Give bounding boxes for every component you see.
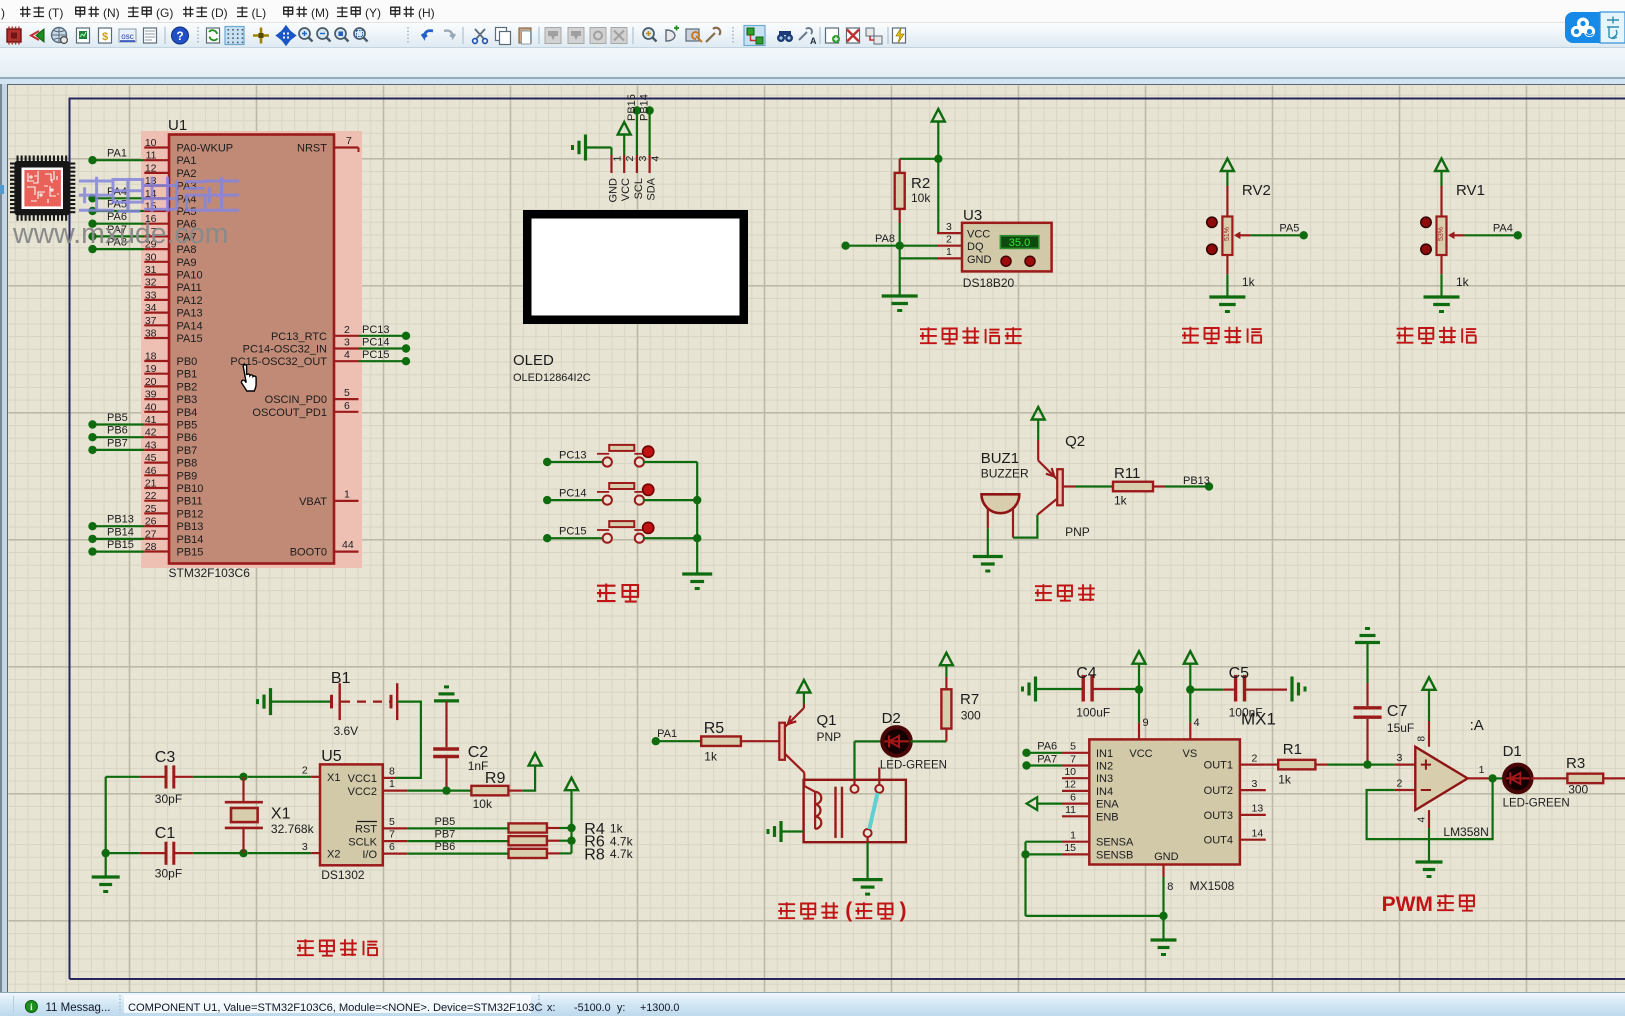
svg-text:25: 25 <box>145 503 157 515</box>
wire net PB6 from U5 <box>408 841 509 854</box>
potentiometer RV2 <box>1207 182 1271 289</box>
svg-text:37: 37 <box>145 315 157 327</box>
svg-text:PA12: PA12 <box>177 295 203 307</box>
U1 right pin BOOT0 <box>290 539 359 559</box>
wire net PB7 from U5 <box>408 829 509 842</box>
svg-text:2: 2 <box>624 156 636 162</box>
ground below RV1 <box>1424 295 1460 298</box>
svg-text:38: 38 <box>145 328 157 340</box>
svg-text:1k: 1k <box>1278 773 1292 787</box>
svg-text:C1: C1 <box>155 825 176 842</box>
svg-text:ENA: ENA <box>1096 799 1119 811</box>
OLED header ground <box>573 135 612 161</box>
OLED header pin 2 VCC <box>620 155 636 201</box>
svg-text:PB9: PB9 <box>177 470 198 482</box>
wire buzzer to Q2 collector <box>1013 515 1037 538</box>
potentiometer RV1 <box>1421 182 1485 289</box>
label 水位检测 <box>1182 327 1262 344</box>
wire net PA4 to U1 <box>88 186 144 203</box>
resistor R8 4.7k <box>509 846 634 863</box>
svg-text:(M): (M) <box>311 6 329 20</box>
label 蜂鸣器 <box>1035 584 1095 601</box>
svg-text:PB0: PB0 <box>177 356 198 368</box>
ground left of relay coil <box>768 821 804 842</box>
svg-text:PA1: PA1 <box>107 148 127 160</box>
svg-text:R2: R2 <box>911 175 930 192</box>
svg-text:11: 11 <box>146 150 157 162</box>
wire net PA8 <box>841 233 937 250</box>
svg-text:?: ? <box>176 29 183 43</box>
svg-text:4: 4 <box>344 349 350 361</box>
svg-text:PB7: PB7 <box>177 445 198 457</box>
wire R2 to PA8 net <box>899 223 901 246</box>
svg-text:3.6V: 3.6V <box>334 724 359 738</box>
led D2 LED-GREEN <box>880 710 947 772</box>
wire R5 to Q1 base <box>741 740 779 742</box>
label 按键 <box>597 584 638 602</box>
svg-text:PA10: PA10 <box>177 270 203 282</box>
svg-text:40: 40 <box>145 401 157 413</box>
wire X1 to U5 pins <box>248 777 312 853</box>
svg-text:1k: 1k <box>1114 494 1128 508</box>
U1 right pin OSCIN_PD0 <box>265 387 359 406</box>
svg-text:(N): (N) <box>103 6 120 20</box>
svg-text:VCC2: VCC2 <box>348 786 377 798</box>
svg-text:R8: R8 <box>584 846 605 863</box>
svg-text:22: 22 <box>145 490 157 502</box>
svg-text:DQ: DQ <box>967 241 984 253</box>
svg-text:GND: GND <box>608 178 620 203</box>
U1 left pins PB0-PB15 <box>144 351 203 559</box>
svg-text:R7: R7 <box>960 691 979 708</box>
wire net PC3 <box>359 337 411 353</box>
ground above C7 <box>1355 641 1380 644</box>
svg-text:PA15: PA15 <box>177 333 203 345</box>
svg-text:Q2: Q2 <box>1065 433 1085 450</box>
svg-text:1: 1 <box>946 246 952 258</box>
wire button PC14 to common <box>644 499 697 501</box>
svg-text:PB5: PB5 <box>435 816 456 828</box>
wire net PA8 to U1 <box>88 237 144 254</box>
svg-text:PB14: PB14 <box>639 94 651 121</box>
svg-text:GND: GND <box>1154 851 1179 863</box>
U1 right pin OSCOUT_PD1 <box>252 400 358 419</box>
svg-text:43: 43 <box>145 439 157 451</box>
svg-text:10: 10 <box>145 137 157 149</box>
svg-text:$: $ <box>102 31 108 43</box>
svg-text:6: 6 <box>344 400 350 412</box>
svg-text:LED-GREEN: LED-GREEN <box>1503 798 1570 810</box>
wire button PC15 to common <box>644 537 697 539</box>
wire net PA1 to U1 <box>88 148 144 165</box>
svg-text:OUT1: OUT1 <box>1204 760 1233 772</box>
wire net PA5 to U1 <box>88 199 144 216</box>
svg-text:U1: U1 <box>168 117 187 134</box>
transistor Q2 PNP <box>1037 433 1089 539</box>
svg-text:C3: C3 <box>155 749 176 766</box>
ground below DS18B20 net <box>882 294 918 297</box>
svg-text:1: 1 <box>344 489 350 501</box>
svg-text:PB6: PB6 <box>435 841 456 853</box>
svg-text:30pF: 30pF <box>155 867 182 881</box>
svg-text:27: 27 <box>145 528 157 540</box>
svg-text:PC13: PC13 <box>559 450 587 462</box>
svg-text:30: 30 <box>145 251 157 263</box>
svg-text:SCLK: SCLK <box>348 836 377 848</box>
svg-text:(L): (L) <box>252 6 267 20</box>
opamp U2:A LM358N <box>1395 717 1489 839</box>
wire net PA6 to IN1 <box>1022 741 1062 758</box>
svg-text:7: 7 <box>346 135 352 147</box>
wire SENSA SENSB common <box>1021 842 1163 916</box>
wire net PC15 to button <box>543 526 602 543</box>
svg-text:PB7: PB7 <box>435 829 456 841</box>
MX1508 right pin OUT1 <box>1204 752 1266 771</box>
crystal X1 32.768k <box>225 777 315 853</box>
driver MX1508 body <box>1089 739 1240 893</box>
svg-text:20: 20 <box>145 376 157 388</box>
wire net PA4 from RV1 wiper <box>1465 223 1523 240</box>
resistor R3 300 <box>1531 755 1625 797</box>
wire R1 to opamp <box>1328 763 1395 765</box>
svg-text:OUT4: OUT4 <box>1204 835 1233 847</box>
MX1508 right pin OUT3 <box>1204 803 1266 822</box>
ground below MX1508 <box>1151 938 1177 941</box>
svg-text:(D): (D) <box>211 6 228 20</box>
svg-text:PB13: PB13 <box>107 514 134 526</box>
svg-text:NRST: NRST <box>297 143 327 155</box>
svg-text:2: 2 <box>344 324 350 336</box>
svg-text:PNP: PNP <box>817 730 842 744</box>
wire net PA6 to U1 <box>88 211 144 228</box>
svg-text:53%: 53% <box>1438 227 1445 241</box>
watermark chip logo <box>10 156 75 221</box>
svg-text:PA1: PA1 <box>657 728 677 740</box>
label 继电器（搅拌） <box>778 902 838 919</box>
svg-text:1k: 1k <box>610 822 624 836</box>
svg-text:PA0-WKUP: PA0-WKUP <box>177 143 234 155</box>
wire RV2 to ground <box>1226 274 1228 297</box>
svg-text:PB5: PB5 <box>177 420 198 432</box>
svg-text:28: 28 <box>145 541 157 553</box>
svg-text:2: 2 <box>302 765 308 777</box>
svg-text:PA14: PA14 <box>177 320 203 332</box>
OLED header pin 3 SCL <box>633 155 649 199</box>
OLED header pin 4 SDA <box>646 155 662 201</box>
svg-text:PC14: PC14 <box>362 337 390 349</box>
svg-text:SENSA: SENSA <box>1096 837 1134 849</box>
svg-text:3: 3 <box>344 337 350 349</box>
MX1508 VS pin 4 <box>1190 717 1199 739</box>
svg-text:4: 4 <box>1194 717 1200 729</box>
U1 right pin NRST <box>297 135 358 155</box>
node junction C7/R1/opamp <box>1363 760 1371 768</box>
svg-text:300: 300 <box>1568 783 1588 797</box>
resistor R7 300 <box>941 677 981 729</box>
resistor R5 1k <box>701 720 741 764</box>
wire net PA5 from RV2 wiper <box>1250 223 1308 240</box>
push button at PC row y=500.1 <box>597 483 654 505</box>
wire buzzer to ground <box>987 528 989 556</box>
wire PA8 node to ground <box>900 246 937 296</box>
wire button PC13 to common <box>644 461 697 463</box>
wire relay contact to D2 <box>855 741 883 785</box>
svg-text:IN4: IN4 <box>1096 786 1113 798</box>
svg-text:41: 41 <box>145 414 157 426</box>
U1 right pin PC14-OSC32_IN <box>243 337 359 356</box>
watermark text 特纳斯电子 <box>79 177 239 212</box>
resistor R6 4.7k <box>509 834 634 851</box>
svg-text:): ) <box>900 899 907 922</box>
svg-text:VCC1: VCC1 <box>348 773 377 785</box>
svg-text:DS1302: DS1302 <box>321 868 365 882</box>
svg-text:OUT3: OUT3 <box>1204 810 1233 822</box>
svg-text:PB12: PB12 <box>177 508 204 520</box>
ground right of C5 <box>1290 677 1293 702</box>
wire D2 to R7 <box>911 729 947 742</box>
svg-text:12: 12 <box>1064 779 1076 791</box>
svg-text:OLED: OLED <box>513 352 554 369</box>
wire R4/R6/R8 common to power <box>560 789 576 853</box>
svg-text:PB4: PB4 <box>177 407 198 419</box>
svg-text:PB15: PB15 <box>177 547 204 559</box>
svg-text:IN2: IN2 <box>1096 761 1113 773</box>
svg-text:PB14: PB14 <box>107 526 134 538</box>
svg-text:PA1: PA1 <box>177 155 197 167</box>
svg-text::A: :A <box>1470 717 1484 734</box>
ground below buttons <box>682 572 712 575</box>
node junction VCC/R2 <box>934 155 942 163</box>
svg-text:LM358N: LM358N <box>1443 825 1488 839</box>
svg-text:PC13_RTC: PC13_RTC <box>271 331 327 343</box>
resistor R2 <box>895 159 939 223</box>
capacitor C4 100uF <box>1036 665 1121 720</box>
label 温度传感器 <box>920 327 1022 344</box>
svg-text:51%: 51% <box>1224 227 1231 241</box>
resistor R4 1k <box>509 821 624 838</box>
svg-text:LED-GREEN: LED-GREEN <box>880 760 947 772</box>
wire net PB14 to OLED SDA <box>639 94 654 155</box>
svg-text:I/O: I/O <box>362 849 377 861</box>
svg-text:PB13: PB13 <box>1183 475 1210 487</box>
svg-text:BOOT0: BOOT0 <box>290 547 327 559</box>
svg-text:IN3: IN3 <box>1096 773 1113 785</box>
svg-text:15: 15 <box>1064 842 1076 854</box>
svg-text:8: 8 <box>1417 736 1428 742</box>
wire C1 to X2 node <box>102 849 248 857</box>
ground left of battery B1 <box>258 688 332 715</box>
svg-text:3: 3 <box>637 156 649 162</box>
svg-text:(Y): (Y) <box>365 6 381 20</box>
wire net PB14 to U1 <box>88 526 144 543</box>
svg-text:A: A <box>810 36 817 46</box>
OLED header pin 1 GND <box>608 148 624 203</box>
svg-text:39: 39 <box>145 389 157 401</box>
ground below C1 <box>92 875 120 878</box>
power flag above opamp <box>1423 677 1436 721</box>
svg-text:2: 2 <box>1397 778 1403 790</box>
capacitor C2 1nF <box>433 702 488 791</box>
svg-text:1: 1 <box>1070 830 1076 842</box>
svg-text:1k: 1k <box>1242 275 1256 289</box>
wire RV1 to ground <box>1440 274 1442 297</box>
svg-text:PA11: PA11 <box>177 282 202 294</box>
buzzer BUZ1 <box>981 450 1029 538</box>
svg-text:4: 4 <box>1417 817 1428 823</box>
svg-text:PC15: PC15 <box>559 526 587 538</box>
svg-text:SENSB: SENSB <box>1096 849 1133 861</box>
svg-text:IN1: IN1 <box>1096 748 1113 760</box>
wire buttons common vertical <box>693 462 701 574</box>
svg-text:46: 46 <box>145 465 157 477</box>
OLED display module <box>523 210 748 324</box>
MX1508 left pin IN3 <box>1062 766 1113 785</box>
wire feedback loop <box>1367 778 1493 839</box>
wire net PB13 to U1 <box>88 514 144 531</box>
svg-text:BUZZER: BUZZER <box>981 467 1029 481</box>
svg-text:44: 44 <box>342 539 354 551</box>
svg-text:PB11: PB11 <box>177 496 203 508</box>
svg-text:1: 1 <box>612 156 624 162</box>
svg-text:OLED12864I2C: OLED12864I2C <box>513 372 591 384</box>
ground left of C4 <box>1034 677 1037 702</box>
MX1508 right pin OUT4 <box>1204 828 1266 847</box>
svg-text:3: 3 <box>1397 752 1403 764</box>
power flag above DS18B20 <box>932 109 945 159</box>
svg-text:PA2: PA2 <box>177 168 197 180</box>
svg-text:4.7k: 4.7k <box>610 847 634 861</box>
svg-text:14: 14 <box>1252 828 1264 840</box>
resistor R9 10k <box>471 770 508 811</box>
U1 right pin PC13_RTC <box>271 324 359 343</box>
svg-text:2: 2 <box>946 234 952 246</box>
wire net PA7 to U1 <box>88 224 144 241</box>
power flag above RV2 <box>1221 159 1234 187</box>
svg-text:6: 6 <box>1070 791 1076 803</box>
power flag at Q2 emitter <box>1032 407 1045 440</box>
svg-text:SCL: SCL <box>633 178 645 199</box>
label 时钟模块 <box>297 939 378 956</box>
wire relay common to ground <box>866 842 868 879</box>
svg-text:31: 31 <box>145 264 157 276</box>
svg-text:4: 4 <box>650 156 662 162</box>
svg-text:8: 8 <box>1167 881 1173 893</box>
wire net PB5 to U1 <box>88 412 144 429</box>
wire net PB7 to U1 <box>88 437 144 454</box>
label 浓度检测 <box>1397 327 1477 344</box>
MX1508 left pin ENB <box>1062 804 1119 823</box>
svg-text:X2: X2 <box>327 848 340 860</box>
wire C3 to X1 node <box>106 773 248 781</box>
mcu U1 body <box>169 135 334 564</box>
svg-text:PB7: PB7 <box>107 437 128 449</box>
power flag VCC at MX1508 <box>1120 651 1146 723</box>
svg-text:PA5: PA5 <box>1279 223 1299 235</box>
svg-text:OUT2: OUT2 <box>1204 785 1233 797</box>
sensor U3 DS18B20 <box>937 207 1052 290</box>
node junction opamp output <box>1488 774 1496 782</box>
MX1508 left pin IN1 <box>1062 741 1113 760</box>
svg-text:U3: U3 <box>963 207 982 224</box>
svg-text:2: 2 <box>1252 752 1258 764</box>
svg-text:30pF: 30pF <box>155 792 182 806</box>
svg-text:PB6: PB6 <box>107 425 128 437</box>
svg-text:PA13: PA13 <box>177 308 203 320</box>
svg-text:VBAT: VBAT <box>299 496 327 508</box>
svg-text:13: 13 <box>1252 803 1264 815</box>
svg-text:35.0: 35.0 <box>1009 237 1030 249</box>
U1 right pin PC15-OSC32_OUT <box>230 349 358 368</box>
capacitor C3 30pF <box>140 749 193 806</box>
svg-text:DS18B20: DS18B20 <box>963 276 1015 290</box>
MX1508 VCC pin 9 <box>1139 717 1149 739</box>
svg-text:PC14: PC14 <box>559 488 587 500</box>
svg-text:R1: R1 <box>1283 741 1302 758</box>
svg-text:10k: 10k <box>911 191 931 205</box>
U1 right pin VBAT <box>299 489 358 508</box>
svg-text:www.mxude.com: www.mxude.com <box>12 218 228 250</box>
rtc U5 DS1302 <box>302 748 408 882</box>
U1 left pins PA0-PA15 <box>144 137 233 345</box>
svg-text:X1: X1 <box>271 806 291 823</box>
svg-text:R3: R3 <box>1566 755 1585 772</box>
svg-text:8: 8 <box>389 766 395 778</box>
svg-text:1k: 1k <box>704 750 718 764</box>
svg-text:D2: D2 <box>882 710 901 727</box>
svg-text:U5: U5 <box>321 748 342 765</box>
svg-text:PNP: PNP <box>1065 525 1090 539</box>
svg-text:PWM: PWM <box>1382 893 1433 916</box>
wire net PB13 from R11 <box>1153 475 1213 491</box>
MX1508 right pin OUT2 <box>1204 778 1266 797</box>
power flag above RV1 <box>1435 159 1448 187</box>
svg-text:3: 3 <box>1252 778 1258 790</box>
svg-text:PB14: PB14 <box>177 534 204 546</box>
svg-text:1k: 1k <box>1456 275 1470 289</box>
svg-text:R11: R11 <box>1114 465 1140 482</box>
wire net PC14 to button <box>543 488 602 505</box>
svg-text:32.768k: 32.768k <box>271 822 315 836</box>
svg-text:ENB: ENB <box>1096 811 1119 823</box>
resistor R11 <box>1113 465 1153 508</box>
svg-text:7: 7 <box>1070 753 1076 765</box>
svg-text:OSCOUT_PD1: OSCOUT_PD1 <box>252 407 327 419</box>
svg-text:): ) <box>1 6 5 20</box>
svg-text:STM32F103C6: STM32F103C6 <box>169 566 251 580</box>
svg-text:45: 45 <box>145 452 157 464</box>
MX1508 left pin SENSB <box>1062 842 1133 861</box>
svg-text:3: 3 <box>946 221 952 233</box>
capacitor C5 100nF <box>1190 665 1287 720</box>
svg-text:X1: X1 <box>327 772 340 784</box>
wire Q2 base to R11 <box>1063 485 1113 487</box>
MX1508 GND pin 8 <box>1159 865 1173 941</box>
svg-text:PC15: PC15 <box>362 349 390 361</box>
wire net PB6 to U1 <box>88 425 144 442</box>
mouse cursor <box>241 365 256 391</box>
transistor Q1 PNP <box>779 704 841 780</box>
svg-text:26: 26 <box>145 516 157 528</box>
ground below opamp <box>1416 860 1443 863</box>
svg-text:3: 3 <box>302 841 308 853</box>
wire net PC13 to button <box>543 450 602 467</box>
svg-text:VS: VS <box>1183 748 1198 760</box>
MX1508 left pin IN4 <box>1062 779 1113 798</box>
power flag right of R9 <box>508 753 541 791</box>
svg-text:R5: R5 <box>704 720 725 737</box>
svg-text:21: 21 <box>145 478 157 490</box>
svg-text:osc: osc <box>121 32 133 41</box>
